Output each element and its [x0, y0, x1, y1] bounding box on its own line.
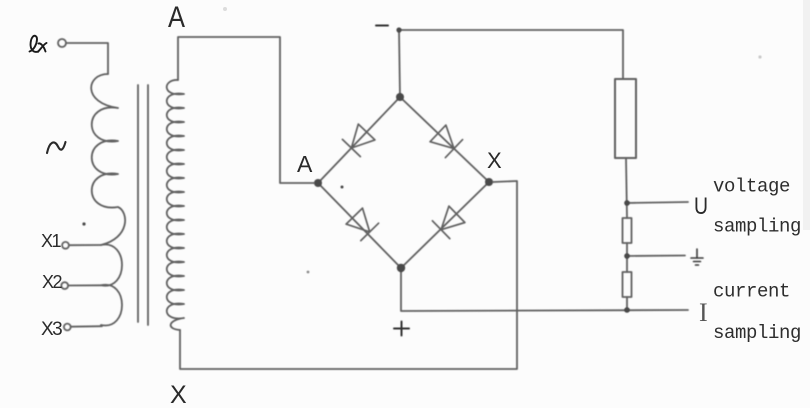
svg-text:I: I [699, 298, 708, 327]
svg-text:U: U [694, 193, 708, 220]
svg-text:voltage: voltage [713, 176, 790, 198]
svg-text:X: X [170, 381, 187, 408]
svg-text:sampling: sampling [713, 322, 801, 344]
svg-text:sampling: sampling [713, 216, 801, 238]
svg-text:X: X [487, 148, 502, 173]
svg-text:X3: X3 [41, 319, 62, 340]
svg-text:A: A [297, 151, 313, 177]
svg-text:current: current [713, 281, 790, 303]
svg-text:X1: X1 [41, 231, 62, 251]
svg-text:X2: X2 [42, 272, 63, 292]
svg-text:A: A [168, 1, 185, 34]
